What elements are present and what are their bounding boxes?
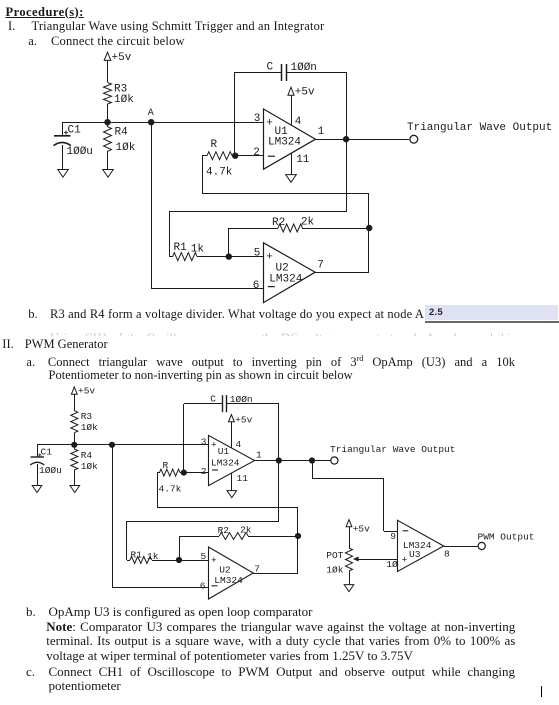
pin 3 label (PWM) xyxy=(201,436,207,447)
power +5v POT xyxy=(346,520,370,535)
power +5v U1 xyxy=(288,87,315,99)
pin 3 label xyxy=(254,113,261,125)
power +5v supply 1 xyxy=(104,52,132,82)
svg-text:4: 4 xyxy=(295,116,302,128)
capacitor C1 100u xyxy=(54,122,93,170)
terminal Triangular Wave Output xyxy=(407,122,552,143)
wire node down to U2 pin 6 (PWM) xyxy=(112,445,208,588)
svg-text:+: + xyxy=(211,440,217,451)
wire pin 4 (PWM) xyxy=(231,422,233,450)
power +5v supply 2 xyxy=(71,385,95,396)
svg-text:9: 9 xyxy=(390,531,396,542)
junction output to U3 (PWM) xyxy=(309,457,315,463)
svg-text:2: 2 xyxy=(253,147,260,159)
wire integrator input row (PWM) xyxy=(157,507,298,573)
svg-text:11: 11 xyxy=(237,473,249,484)
svg-text:7: 7 xyxy=(254,564,260,575)
node row wire (PWM) xyxy=(37,444,208,446)
resistor R2 2k xyxy=(272,216,369,232)
svg-text:+: + xyxy=(266,251,273,263)
node row wire xyxy=(62,122,263,124)
pin 8 label xyxy=(444,548,450,559)
ground R4 (PWM) xyxy=(70,486,80,493)
pin 11 label xyxy=(296,154,310,166)
svg-text:1k: 1k xyxy=(191,244,205,256)
pin 4 label (PWM) xyxy=(236,439,242,450)
junction R2 to output (PWM) xyxy=(295,533,301,539)
op-amp U1 LM324 xyxy=(264,109,316,169)
svg-text:2: 2 xyxy=(201,466,207,477)
pin 1 label (PWM) xyxy=(256,449,262,460)
svg-text:+: + xyxy=(266,118,273,130)
resistor R1 1k (PWM) xyxy=(127,549,179,563)
svg-text:1: 1 xyxy=(256,449,262,460)
svg-text:7: 7 xyxy=(317,259,324,271)
svg-text:6: 6 xyxy=(200,580,206,591)
svg-text:8: 8 xyxy=(444,548,450,559)
svg-text:1ØØu: 1ØØu xyxy=(39,465,62,476)
junction output to feedback (PWM) xyxy=(276,457,282,463)
junction divider node (PWM) xyxy=(71,442,77,448)
junction R1 to pin 5 (PWM) xyxy=(176,557,182,563)
svg-text:4.7k: 4.7k xyxy=(206,167,233,179)
svg-text:R: R xyxy=(211,139,218,151)
svg-text:+5v: +5v xyxy=(112,52,132,64)
ground C1 xyxy=(58,170,69,178)
text cursor xyxy=(541,686,543,697)
svg-text:1Øk: 1Øk xyxy=(116,142,136,154)
svg-text:+: + xyxy=(211,555,217,566)
svg-text:LM324: LM324 xyxy=(269,273,302,285)
wire R3b to node xyxy=(74,433,76,445)
pin 1 label xyxy=(318,126,325,138)
svg-text:1Øk: 1Øk xyxy=(326,565,343,576)
junction R1 to pin 5 xyxy=(226,253,232,259)
wire R1 junction up to R2 xyxy=(229,228,279,257)
resistor R2 2k (PWM) xyxy=(218,525,298,540)
wire R4b to ground xyxy=(74,470,76,486)
resistor R3 (PWM) xyxy=(71,411,98,433)
svg-text:1ØØn: 1ØØn xyxy=(230,394,253,405)
wire U1 output row (PWM) xyxy=(255,460,331,462)
junction U1 output xyxy=(343,136,349,142)
svg-text:POT: POT xyxy=(326,550,343,561)
wire U3 output xyxy=(444,546,478,548)
svg-text:R: R xyxy=(163,460,169,471)
svg-text:C1: C1 xyxy=(41,446,53,457)
pin 5 label (PWM) xyxy=(201,551,207,562)
svg-text:1: 1 xyxy=(318,126,325,138)
svg-text:1Øk: 1Øk xyxy=(81,422,98,433)
pin 6 label (PWM) xyxy=(200,580,206,591)
wire U2 output (PWM) xyxy=(253,573,298,575)
ground C1 (PWM) xyxy=(32,486,42,493)
junction R2 to output xyxy=(366,225,372,231)
svg-text:+5v: +5v xyxy=(78,385,95,396)
junction R to pin2 xyxy=(232,153,238,159)
answer field 2.5 xyxy=(425,305,558,320)
pin 5 label xyxy=(254,248,261,260)
junction R to pin 2 (PWM) xyxy=(181,470,187,476)
svg-text:R1: R1 xyxy=(174,242,188,254)
circuit: Triangular Wave generator xyxy=(0,0,559,336)
ground U1 pin 11 (PWM) xyxy=(227,491,237,498)
wire integrator input row xyxy=(202,194,369,273)
potentiometer POT 10k xyxy=(326,527,352,585)
svg-text:R3: R3 xyxy=(81,411,93,422)
svg-text:R2: R2 xyxy=(218,525,230,536)
wire R left leg down (PWM) xyxy=(157,473,159,507)
capacitor C 100n feedback xyxy=(234,61,346,81)
node A xyxy=(148,108,155,126)
svg-text:11: 11 xyxy=(296,154,310,166)
svg-text:4.7k: 4.7k xyxy=(159,483,182,494)
terminal Triangular Wave Output (PWM) xyxy=(330,444,455,464)
wire Schmitt input row (PWM) xyxy=(127,521,280,560)
op-amp U1 LM324 (PWM) xyxy=(209,435,255,485)
junction divider node xyxy=(104,119,110,125)
svg-text:+5v: +5v xyxy=(235,414,252,425)
wire Schmitt input row xyxy=(169,212,346,258)
wire feedback left leg xyxy=(234,72,236,156)
clipped text line xyxy=(28,332,515,336)
svg-text:+5v: +5v xyxy=(295,87,315,99)
svg-text:R4: R4 xyxy=(81,450,93,461)
pin 7 label xyxy=(317,259,324,271)
resistor R 4.7k (PWM) xyxy=(157,460,208,494)
svg-text:6: 6 xyxy=(253,280,260,292)
ground R4 xyxy=(103,170,114,178)
svg-text:1ØØn: 1ØØn xyxy=(291,62,317,74)
wire R left leg down xyxy=(202,156,204,194)
svg-text:2k: 2k xyxy=(301,216,315,228)
wire node A down to U2 pin 6 xyxy=(151,122,263,289)
svg-text:LM324: LM324 xyxy=(268,136,301,148)
svg-text:2k: 2k xyxy=(240,525,252,536)
op-amp U3 LM324 comparator xyxy=(398,520,444,571)
circuit: PWM generator xyxy=(0,380,559,605)
svg-text:C1: C1 xyxy=(68,124,82,136)
wire pin 5 (PWM) xyxy=(179,560,208,562)
resistor R 4.7k xyxy=(202,139,263,179)
svg-text:1ØØu: 1ØØu xyxy=(67,146,93,158)
junction node to U2 (PWM) xyxy=(109,442,115,448)
ground U1 pin 11 xyxy=(286,175,297,183)
svg-text:1Ø: 1Ø xyxy=(386,559,398,570)
wire R3 to node xyxy=(107,104,109,122)
svg-text:+: + xyxy=(402,554,408,565)
svg-text:C: C xyxy=(210,393,216,404)
svg-text:R2: R2 xyxy=(272,217,285,229)
svg-text:PWM Output: PWM Output xyxy=(478,531,535,542)
svg-text:U3: U3 xyxy=(409,549,421,560)
wire output right leg (PWM) xyxy=(278,404,280,521)
ground POT xyxy=(344,585,354,592)
svg-text:U1: U1 xyxy=(218,446,230,457)
svg-text:A: A xyxy=(148,108,154,119)
wire output right leg xyxy=(346,72,348,212)
wire pin 11 xyxy=(291,151,293,175)
svg-text:5: 5 xyxy=(254,248,261,260)
wire U2 output xyxy=(315,272,369,274)
pin 9 label xyxy=(390,531,396,542)
svg-text:3: 3 xyxy=(254,113,261,125)
svg-text:+5v: +5v xyxy=(353,524,370,535)
document text xyxy=(6,6,84,19)
pin 7 label (PWM) xyxy=(254,564,260,575)
svg-text:5: 5 xyxy=(201,551,207,562)
svg-text:R4: R4 xyxy=(115,126,129,138)
wire feedback left leg (PWM) xyxy=(183,404,185,473)
power +5v U1 (PWM) xyxy=(229,414,253,425)
wire pin 11 (PWM) xyxy=(231,472,233,491)
pin 11 label (PWM) xyxy=(237,473,249,484)
pin 10 label xyxy=(386,559,398,570)
pin 2 label (PWM) xyxy=(201,466,207,477)
resistor R1 1k xyxy=(169,242,229,261)
op-amp U2 LM324 (PWM) xyxy=(209,547,254,599)
resistor R4 xyxy=(104,122,136,154)
wiper wire to pin 10 xyxy=(353,557,397,562)
wire U1 output row xyxy=(315,139,409,141)
wire U1 out down to comparator xyxy=(312,460,397,532)
svg-text:3: 3 xyxy=(201,436,207,447)
svg-text:LM324: LM324 xyxy=(214,575,243,586)
svg-text:Triangular Wave Output: Triangular Wave Output xyxy=(407,122,552,134)
wire pin 4 xyxy=(291,95,293,127)
svg-text:1k: 1k xyxy=(147,551,159,562)
wire R4 to ground xyxy=(107,151,109,170)
svg-text:LM324: LM324 xyxy=(211,457,240,468)
svg-text:C: C xyxy=(267,61,274,73)
pin 4 label xyxy=(295,116,302,128)
op-amp U2 LM324 xyxy=(264,243,316,303)
terminal PWM Output xyxy=(478,531,535,549)
pin 2 label xyxy=(253,147,260,159)
pin 6 label xyxy=(253,280,260,292)
wire pin 5 xyxy=(229,256,263,258)
svg-text:1Øk: 1Øk xyxy=(114,94,134,106)
resistor R3 xyxy=(104,83,135,106)
svg-text:R1: R1 xyxy=(131,549,143,560)
svg-text:4: 4 xyxy=(236,439,242,450)
svg-text:U2: U2 xyxy=(219,565,231,576)
svg-text:Triangular Wave Output: Triangular Wave Output xyxy=(330,444,455,455)
resistor R4 (PWM) xyxy=(71,445,98,472)
capacitor C 100n (PWM) xyxy=(184,393,279,412)
svg-text:1Øk: 1Øk xyxy=(81,461,98,472)
wire R1 junction up to R2 (PWM) xyxy=(179,536,219,560)
wire supply to R3b xyxy=(74,394,76,411)
capacitor C1 100u (PWM) xyxy=(30,445,62,486)
